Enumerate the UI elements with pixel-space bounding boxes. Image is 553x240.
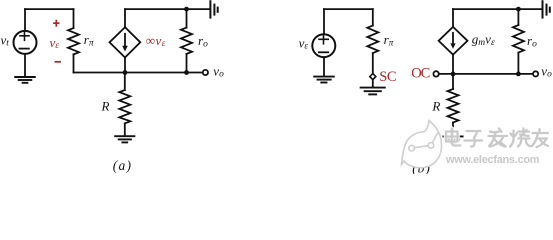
wire SC to ground b <box>372 79 374 87</box>
svg-text:(a): (a) <box>113 158 132 173</box>
terminal vo b <box>533 71 538 76</box>
svg-text:vo: vo <box>213 64 224 80</box>
svg-text:vε: vε <box>299 36 309 52</box>
svg-text:vo: vo <box>541 63 552 79</box>
svg-text:ro: ro <box>198 33 208 50</box>
svg-text:rπ: rπ <box>384 32 394 48</box>
svg-text:OC: OC <box>411 66 429 82</box>
svg-text:∞vε: ∞vε <box>146 33 166 49</box>
junction dot top b <box>516 7 521 12</box>
terminal OC b <box>433 71 438 76</box>
svg-text:SC: SC <box>379 69 396 85</box>
wire ve-top b <box>323 9 325 34</box>
ground top-right a (pointing right) <box>210 1 217 17</box>
resistor r_o a <box>181 9 192 72</box>
wire top-right rail a <box>125 8 209 10</box>
watermark chinese text <box>446 129 548 148</box>
wire bottom rail b <box>439 73 533 75</box>
ground under SC b <box>361 88 385 95</box>
wire vt-top a <box>24 9 26 31</box>
terminal vo a <box>203 70 208 75</box>
resistor r_o b <box>513 9 524 74</box>
wire top-left rail b <box>324 8 373 10</box>
junction dot bottom a (r_o) <box>184 70 189 75</box>
wire vt-bottom a <box>24 54 26 77</box>
dependent source branch top a <box>124 9 126 27</box>
junction dot bottom b (R branch) <box>451 72 456 77</box>
ground under Vt <box>15 77 35 83</box>
junction dot top a <box>184 7 189 12</box>
junction dot bottom b (r_o) <box>516 72 521 77</box>
watermark logo <box>402 121 442 168</box>
resistor R b <box>448 74 459 136</box>
wire ve-bottom b <box>323 57 325 76</box>
terminal SC b <box>370 74 376 80</box>
wire dep source to bottom rail a <box>124 58 126 73</box>
op: dependent current source inf*ve (diamond) <box>110 27 141 57</box>
dependent source branch top b <box>452 9 454 27</box>
op: dependent current source gm*ve (diamond) <box>439 27 468 55</box>
resistor r_pi a <box>68 9 79 72</box>
wire top-right rail b <box>453 8 542 10</box>
ground top-right b (pointing right) <box>543 1 550 17</box>
wire dep source to bottom rail b <box>452 55 454 74</box>
ground under Ve <box>314 77 334 83</box>
junction dot bottom a (R branch) <box>123 70 128 75</box>
wire top-left rail a <box>25 8 74 10</box>
red labels <box>50 20 430 85</box>
ground under R b <box>443 136 462 142</box>
wire bottom rail a <box>74 72 203 74</box>
label plus red a <box>53 20 59 27</box>
svg-text:R: R <box>101 99 110 114</box>
svg-text:vε: vε <box>50 35 60 51</box>
svg-text:R: R <box>431 99 440 114</box>
svg-text:gmvε: gmvε <box>472 32 495 48</box>
svg-text:rπ: rπ <box>84 32 94 48</box>
resistor r_pi b <box>367 9 378 74</box>
voltage source Ve <box>312 34 335 57</box>
label minus red a <box>55 61 61 63</box>
svg-text:ro: ro <box>527 33 537 50</box>
ground under R a <box>115 136 134 142</box>
resistor R a <box>119 73 130 136</box>
svg-text:www.elecfans.com: www.elecfans.com <box>445 154 540 166</box>
svg-text:vt: vt <box>1 32 10 48</box>
voltage source Vt <box>14 31 37 54</box>
